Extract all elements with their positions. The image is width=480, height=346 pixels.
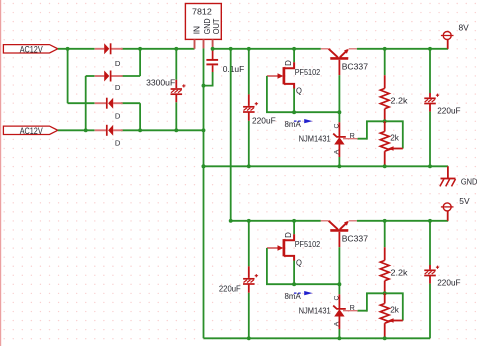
svg-text:C: C xyxy=(333,124,340,129)
svg-text:PF5102: PF5102 xyxy=(295,239,321,249)
svg-text:AC12V: AC12V xyxy=(20,45,44,55)
svg-text:5V: 5V xyxy=(459,196,470,206)
svg-text:IN: IN xyxy=(191,26,201,34)
svg-text:220uF: 220uF xyxy=(437,278,460,288)
svg-text:8V: 8V xyxy=(459,23,470,33)
svg-text:R: R xyxy=(350,303,355,312)
svg-text:0.1uF: 0.1uF xyxy=(223,64,245,74)
svg-text:2.2k: 2.2k xyxy=(391,268,409,278)
svg-text:220uF: 220uF xyxy=(437,106,460,116)
svg-text:A: A xyxy=(333,321,340,326)
svg-text:8mA: 8mA xyxy=(285,291,302,301)
svg-text:D: D xyxy=(284,60,293,66)
svg-text:D: D xyxy=(115,139,121,148)
svg-text:2k: 2k xyxy=(390,133,399,143)
svg-text:D: D xyxy=(284,232,293,238)
svg-text:A: A xyxy=(333,149,340,154)
svg-text:Q: Q xyxy=(296,259,302,268)
svg-text:BC337: BC337 xyxy=(342,233,369,243)
svg-text:AC12V: AC12V xyxy=(20,126,44,136)
svg-text:220uF: 220uF xyxy=(219,283,241,293)
svg-text:OUT: OUT xyxy=(211,18,221,34)
svg-text:220uF: 220uF xyxy=(252,115,276,125)
svg-text:2.2k: 2.2k xyxy=(391,96,409,106)
svg-text:R: R xyxy=(350,131,355,140)
svg-text:C: C xyxy=(333,296,340,301)
svg-text:BC337: BC337 xyxy=(342,61,369,71)
svg-text:D: D xyxy=(115,83,121,92)
svg-text:D: D xyxy=(115,59,121,68)
svg-text:D: D xyxy=(115,111,121,120)
svg-text:8mA: 8mA xyxy=(285,119,302,129)
svg-text:7812: 7812 xyxy=(192,6,212,16)
svg-text:NJM1431: NJM1431 xyxy=(299,306,331,316)
svg-text:GND: GND xyxy=(461,177,478,187)
svg-text:PF5102: PF5102 xyxy=(295,67,321,77)
svg-text:NJM1431: NJM1431 xyxy=(299,134,331,144)
svg-text:Q: Q xyxy=(296,87,302,96)
svg-text:3300uF: 3300uF xyxy=(146,78,175,88)
svg-text:2k: 2k xyxy=(390,305,399,315)
